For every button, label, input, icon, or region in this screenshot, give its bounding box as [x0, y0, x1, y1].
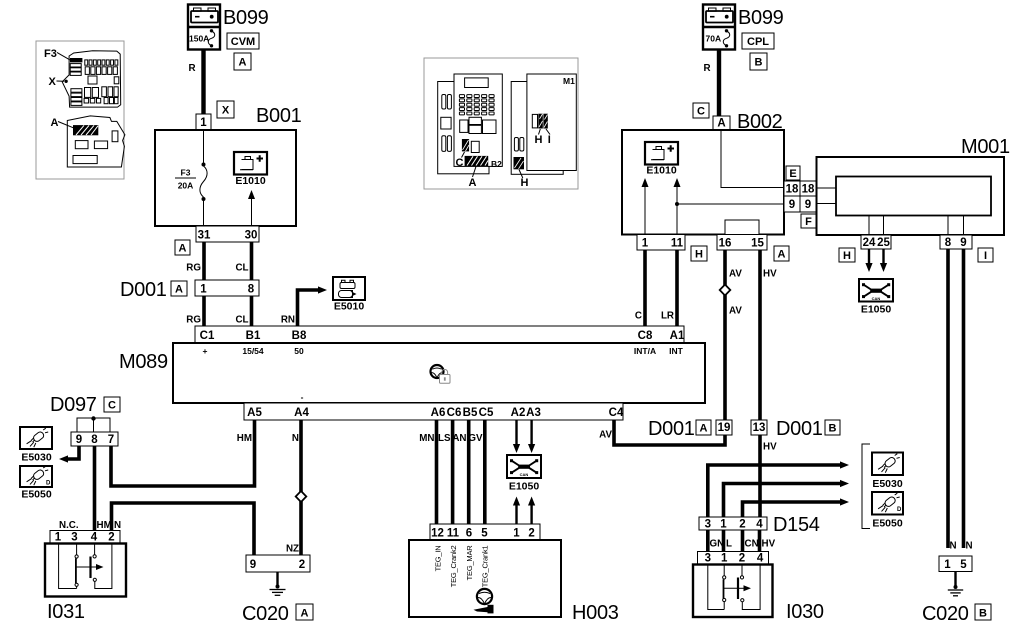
- svg-text:LR: LR: [661, 311, 674, 322]
- svg-text:H: H: [843, 250, 851, 262]
- svg-text:N: N: [950, 541, 957, 552]
- svg-text:NZ: NZ: [286, 544, 299, 555]
- svg-text:N.C.: N.C.: [59, 520, 79, 531]
- svg-text:CN: CN: [745, 539, 759, 550]
- svg-text:18: 18: [802, 184, 815, 196]
- svg-text:E5050: E5050: [872, 518, 903, 530]
- svg-text:1: 1: [944, 559, 951, 571]
- svg-text:F3: F3: [181, 168, 191, 178]
- svg-text:GV: GV: [468, 433, 483, 444]
- svg-text:M001: M001: [961, 136, 1010, 158]
- svg-text:C: C: [697, 106, 705, 118]
- svg-text:D001: D001: [776, 418, 823, 440]
- svg-text:A: A: [179, 243, 187, 255]
- svg-text:AV: AV: [599, 430, 612, 441]
- svg-text:4: 4: [757, 553, 764, 565]
- svg-text:AV: AV: [729, 269, 742, 280]
- svg-text:1: 1: [55, 532, 62, 544]
- svg-text:1: 1: [642, 238, 649, 250]
- svg-text:2: 2: [739, 519, 745, 531]
- svg-text:B1: B1: [246, 330, 261, 342]
- svg-text:I031: I031: [47, 601, 85, 623]
- svg-text:A5: A5: [247, 407, 262, 419]
- svg-text:5: 5: [481, 528, 488, 540]
- svg-text:2: 2: [299, 559, 305, 571]
- svg-text:A: A: [301, 608, 309, 620]
- svg-text:A: A: [469, 177, 477, 189]
- svg-text:1: 1: [513, 528, 520, 540]
- svg-text:I030: I030: [786, 601, 824, 623]
- svg-text:TEG_MAR: TEG_MAR: [465, 545, 474, 581]
- svg-text:N: N: [292, 433, 299, 444]
- svg-text:1: 1: [200, 117, 207, 129]
- svg-text:E5030: E5030: [21, 452, 52, 464]
- svg-text:B: B: [829, 423, 837, 435]
- svg-text:L: L: [726, 539, 732, 550]
- svg-text:TEG_IN: TEG_IN: [434, 546, 443, 572]
- svg-text:24: 24: [863, 237, 876, 249]
- svg-text:31: 31: [198, 230, 211, 242]
- svg-text:15: 15: [751, 238, 764, 250]
- svg-text:C: C: [635, 311, 642, 322]
- svg-text:INT: INT: [669, 346, 684, 356]
- svg-text:9: 9: [789, 199, 795, 211]
- svg-text:B099: B099: [738, 7, 784, 29]
- svg-text:C5: C5: [479, 407, 494, 419]
- svg-text:X: X: [222, 105, 230, 117]
- svg-text:2: 2: [108, 532, 114, 544]
- svg-text:30: 30: [245, 230, 258, 242]
- svg-text:HV: HV: [762, 539, 776, 550]
- svg-text:A4: A4: [294, 407, 309, 419]
- svg-text:8: 8: [91, 434, 98, 446]
- svg-text:HV: HV: [763, 269, 777, 280]
- svg-text:E1050: E1050: [509, 481, 540, 493]
- svg-text:CVM: CVM: [231, 36, 255, 48]
- svg-text:M089: M089: [119, 351, 168, 373]
- svg-text:9: 9: [960, 237, 966, 249]
- svg-text:D097: D097: [50, 394, 97, 416]
- svg-text:A: A: [717, 118, 725, 130]
- svg-text:CL: CL: [235, 263, 248, 274]
- svg-text:D154: D154: [773, 514, 820, 536]
- svg-text:AN: AN: [452, 433, 466, 444]
- svg-text:B001: B001: [256, 105, 302, 127]
- svg-text:B8: B8: [292, 330, 307, 342]
- svg-text:INT/A: INT/A: [634, 346, 656, 356]
- svg-text:HM: HM: [237, 433, 252, 444]
- svg-text:R: R: [704, 63, 711, 74]
- svg-text:N: N: [966, 541, 973, 552]
- svg-text:X: X: [49, 76, 57, 88]
- svg-text:H: H: [695, 249, 703, 261]
- svg-text:TEG_Crank1: TEG_Crank1: [481, 545, 490, 587]
- svg-text:LS: LS: [438, 433, 451, 444]
- svg-text:B: B: [979, 608, 987, 620]
- svg-text:2: 2: [528, 528, 534, 540]
- svg-text:A6: A6: [431, 407, 446, 419]
- svg-text:MN: MN: [419, 433, 434, 444]
- svg-text:9: 9: [250, 559, 256, 571]
- svg-text:C4: C4: [609, 407, 624, 419]
- svg-text:5: 5: [960, 559, 967, 571]
- svg-text:15/54: 15/54: [242, 346, 264, 356]
- svg-text:I: I: [984, 250, 987, 262]
- svg-text:TEG_Crank2: TEG_Crank2: [449, 545, 458, 587]
- svg-text:1: 1: [720, 519, 727, 531]
- svg-text:H: H: [535, 134, 543, 146]
- svg-text:H: H: [521, 177, 529, 189]
- svg-text:AV: AV: [729, 306, 742, 317]
- svg-text:R: R: [189, 63, 196, 74]
- svg-text:A: A: [239, 57, 247, 69]
- svg-text:150A: 150A: [189, 34, 209, 44]
- svg-text:C: C: [456, 157, 464, 169]
- svg-text:CPL: CPL: [747, 36, 769, 48]
- svg-text:B2: B2: [491, 159, 502, 169]
- svg-text:CL: CL: [235, 315, 248, 326]
- svg-text:M1: M1: [563, 76, 575, 86]
- svg-text:9: 9: [805, 199, 811, 211]
- svg-text:7: 7: [108, 434, 114, 446]
- svg-text:25: 25: [877, 237, 890, 249]
- svg-text:A2: A2: [511, 407, 526, 419]
- svg-text:A: A: [778, 249, 786, 261]
- svg-text:-: -: [301, 392, 304, 402]
- svg-text:E5050: E5050: [21, 489, 52, 501]
- svg-text:E1050: E1050: [861, 304, 892, 316]
- svg-text:A: A: [175, 284, 183, 296]
- svg-text:B099: B099: [223, 7, 269, 29]
- svg-text:8: 8: [248, 284, 255, 296]
- svg-text:18: 18: [786, 184, 799, 196]
- svg-text:D: D: [897, 507, 902, 513]
- svg-text:C020: C020: [242, 603, 289, 625]
- svg-text:N: N: [114, 520, 121, 531]
- svg-text:E1010: E1010: [235, 175, 266, 187]
- svg-text:A3: A3: [526, 407, 541, 419]
- svg-text:9: 9: [76, 434, 82, 446]
- svg-text:3: 3: [705, 519, 711, 531]
- svg-text:11: 11: [671, 238, 684, 250]
- svg-text:C8: C8: [638, 330, 653, 342]
- svg-text:C6: C6: [447, 407, 462, 419]
- svg-text:1: 1: [721, 553, 728, 565]
- svg-text:E5030: E5030: [872, 478, 903, 490]
- svg-text:11: 11: [447, 528, 460, 540]
- svg-text:4: 4: [91, 532, 98, 544]
- svg-text:+: +: [203, 346, 208, 356]
- svg-text:1: 1: [200, 284, 207, 296]
- svg-text:3: 3: [71, 532, 77, 544]
- svg-text:B: B: [755, 57, 763, 69]
- svg-text:20A: 20A: [178, 181, 194, 191]
- svg-text:C1: C1: [200, 330, 215, 342]
- svg-text:I: I: [548, 134, 551, 146]
- svg-text:H003: H003: [572, 602, 619, 624]
- svg-text:E1010: E1010: [646, 165, 677, 177]
- svg-text:3: 3: [705, 553, 711, 565]
- svg-text:RG: RG: [186, 263, 201, 274]
- svg-text:16: 16: [719, 238, 732, 250]
- svg-text:12: 12: [431, 528, 444, 540]
- svg-text:6: 6: [466, 528, 472, 540]
- svg-text:HM: HM: [97, 520, 112, 531]
- svg-text:4: 4: [756, 519, 763, 531]
- svg-text:RG: RG: [186, 315, 201, 326]
- svg-text:D: D: [46, 481, 51, 487]
- svg-text:70A: 70A: [706, 34, 722, 44]
- svg-text:D001: D001: [648, 418, 695, 440]
- svg-text:19: 19: [718, 422, 731, 434]
- svg-text:RN: RN: [281, 315, 295, 326]
- svg-text:E: E: [789, 168, 796, 180]
- svg-text:C: C: [108, 400, 116, 412]
- svg-text:D001: D001: [120, 279, 167, 301]
- svg-text:C020: C020: [922, 603, 969, 625]
- svg-text:E5010: E5010: [334, 301, 365, 313]
- svg-text:2: 2: [739, 553, 745, 565]
- svg-text:HV: HV: [763, 442, 777, 453]
- svg-text:13: 13: [753, 422, 766, 434]
- svg-text:F: F: [805, 216, 812, 228]
- svg-text:A: A: [51, 117, 59, 129]
- svg-text:GN: GN: [710, 539, 725, 550]
- svg-text:8: 8: [945, 237, 952, 249]
- svg-text:A: A: [700, 423, 708, 435]
- svg-text:A1: A1: [670, 330, 685, 342]
- svg-text:B5: B5: [463, 407, 478, 419]
- svg-text:F3: F3: [44, 48, 57, 60]
- svg-text:50: 50: [294, 346, 304, 356]
